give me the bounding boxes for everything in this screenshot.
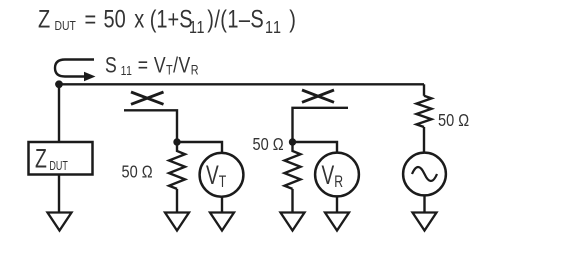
node C junction dot: [289, 138, 296, 145]
coupler X1: [131, 92, 164, 104]
ground under R2: [281, 213, 305, 231]
ground under R1: [165, 213, 189, 231]
wire main horizontal bus: [59, 83, 424, 85]
wire pickoff line 2 with left drop: [293, 108, 349, 142]
ground under source: [413, 213, 437, 231]
resistor R3 zigzag: [417, 96, 432, 127]
node A junction dot: [55, 80, 63, 88]
ground under V_R: [325, 213, 349, 231]
S11 reflection arrow: [55, 60, 96, 82]
wire V_T to ground: [221, 197, 223, 212]
wire R1 to ground: [176, 189, 178, 212]
wire left vertical to Z_DUT: [58, 84, 60, 142]
wire pickoff line 1 with right drop: [124, 110, 177, 142]
wire source to ground: [423, 196, 425, 212]
Z_DUT box: [29, 142, 93, 175]
wire R2 to ground: [291, 189, 293, 212]
wire node B to V_T: [177, 142, 222, 152]
voltmeter V_R: [315, 153, 359, 197]
ground under Z_DUT: [48, 213, 72, 231]
wire node C to V_R: [293, 142, 338, 152]
ground under V_T: [210, 213, 234, 231]
voltmeter V_T: [200, 153, 244, 197]
wire Z_DUT box to ground: [58, 175, 60, 213]
resistor R2 zigzag: [285, 142, 301, 189]
coupler X2: [302, 90, 334, 102]
resistor R1 zigzag: [169, 142, 185, 189]
wire V_R to ground: [336, 197, 338, 212]
wire R3 to source: [423, 127, 425, 153]
svg-text:50 Ω: 50 Ω: [438, 111, 469, 131]
svg-text:50 Ω: 50 Ω: [122, 162, 153, 182]
node B junction dot: [173, 138, 180, 145]
source V1 AC generator: [403, 153, 446, 196]
wire right vertical drop from bus: [423, 84, 425, 96]
svg-text:50 Ω: 50 Ω: [253, 135, 284, 155]
